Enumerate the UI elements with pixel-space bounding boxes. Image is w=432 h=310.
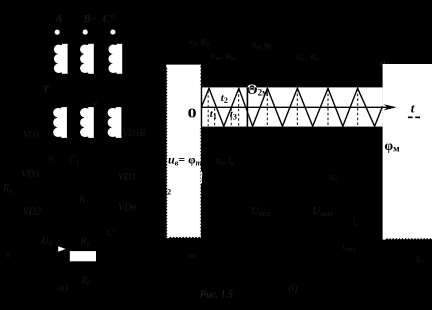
svg-text:и: и (49, 153, 54, 163)
terminal dot phase B (83, 30, 88, 35)
oscillogram bitmap: left white panel (166, 65, 201, 239)
oscillogram bitmap: right white panel (383, 64, 432, 240)
svg-text:А: А (54, 13, 62, 25)
svg-text:В: В (82, 13, 90, 25)
svg-text:м: м (91, 99, 97, 108)
transformer T secondary winding phase B (80, 107, 94, 138)
svg-text:≡: ≡ (91, 14, 96, 23)
oscillogram band right piece (248, 87, 382, 126)
svg-text:VD6: VD6 (118, 203, 136, 214)
oscillogram band left piece (201, 87, 247, 126)
terminal dot phase C (110, 30, 115, 35)
svg-text:оо: оо (188, 251, 196, 260)
dashed marker at t1 apex (207, 91, 209, 127)
label Theta2m black part on band (246, 82, 268, 98)
svg-text:в: в (7, 251, 11, 260)
dashed marker apex 4 (296, 89, 298, 127)
dash 2 under t (415, 117, 420, 119)
svg-text:С°: С° (103, 13, 115, 25)
svg-text:VD1: VD1 (118, 172, 136, 183)
terminal dot phase A (55, 30, 60, 35)
dashed marker second apex (238, 90, 240, 127)
potentiometer R0 body (70, 251, 96, 261)
speckle dots on left panel right edge lower (199, 128, 201, 237)
speckle dots on left panel right edge upper (199, 66, 201, 86)
transformer T primary winding phase A (54, 44, 68, 74)
wiper arrow of potentiometer R0 (58, 246, 65, 252)
svg-text:С': С' (107, 228, 116, 238)
svg-text:а): а) (59, 282, 69, 294)
svg-text:t: t (411, 100, 415, 115)
transformer T secondary winding phase C (108, 107, 122, 138)
transformer T primary winding phase C (108, 44, 122, 74)
svg-text:VD1.: VD1. (23, 130, 42, 140)
time axis arrowhead (384, 104, 397, 110)
svg-text:0: 0 (188, 106, 197, 121)
svg-text:Рис. 1.5: Рис. 1.5 (199, 290, 233, 301)
dash 1 under t (408, 117, 413, 119)
svg-text:h: h (80, 195, 85, 206)
label Theta2m white part above band (246, 82, 268, 98)
time axis with arrow (201, 106, 395, 108)
dashed marker apex 5 (327, 89, 329, 127)
label uv=phi on left panel (168, 152, 202, 167)
transformer T secondary winding phase A (53, 107, 67, 138)
svg-text:б): б) (289, 283, 299, 295)
svg-text:VD2: VD2 (23, 207, 41, 218)
sawtooth reference waveform left piece (201, 88, 382, 126)
svg-text:3.: 3. (415, 255, 422, 264)
sawtooth reference waveform right piece (201, 88, 382, 126)
svg-text:VD1В: VD1В (123, 128, 145, 138)
dashed marker apex 6 (357, 89, 359, 127)
transformer T primary winding phase B (80, 44, 94, 74)
svg-text:VD5: VD5 (21, 170, 39, 181)
dashed marker t1 (214, 108, 216, 126)
dashed marker apex 3 (266, 89, 268, 127)
white squiggle arrow (200, 172, 203, 184)
vertical axis (201, 87, 203, 127)
dashed marker t3 (230, 108, 232, 126)
